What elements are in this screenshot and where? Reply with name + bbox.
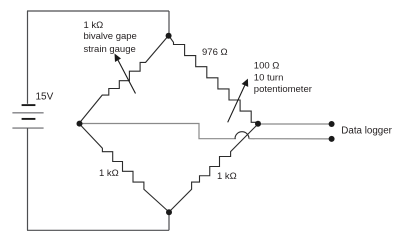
arrowhead of strain gauge arrow [115, 54, 122, 63]
svg-text:Data logger: Data logger [341, 126, 392, 137]
wire: drop from top wire into node T [168, 11, 170, 35]
svg-text:100 Ω: 100 Ω [254, 60, 280, 71]
svg-text:15V: 15V [36, 92, 54, 103]
wire hop over bottom-right arm [235, 132, 249, 139]
wire: rise from bottom wire into node B [168, 212, 170, 230]
svg-text:1 kΩ: 1 kΩ [99, 168, 119, 179]
terminal dot: data logger top [329, 121, 335, 127]
resistor R4 1 kohm (bottom-right arm) [169, 124, 258, 212]
arrow of strain gauge (variable) [118, 60, 136, 93]
wire: top output from node R to data logger [258, 123, 330, 125]
arrowhead of potentiometer arrow [242, 79, 249, 87]
node T (top of bridge) [166, 33, 172, 39]
svg-text:bivalve gape: bivalve gape [84, 31, 137, 42]
svg-text:potentiometer: potentiometer [254, 84, 312, 95]
wire: bottom output continuing to data logger [249, 138, 330, 140]
node B (bottom of bridge) [166, 209, 172, 215]
svg-text:1 kΩ: 1 kΩ [217, 171, 237, 182]
wire: battery bottom down to bottom-left corner [27, 128, 29, 230]
arrow of potentiometer wiper [228, 85, 245, 122]
node R (right of bridge) [255, 121, 261, 127]
wire: left vertical from battery top up to top-left corner [27, 11, 29, 104]
resistor R2 976 ohm and potentiometer (top-right arm) [169, 36, 258, 123]
svg-text:1 kΩ: 1 kΩ [84, 20, 104, 31]
svg-text:976 Ω: 976 Ω [202, 47, 228, 58]
wire: bottom output from node L with step down [79, 124, 236, 139]
resistor R1 1 kohm bivalve gape strain gauge (left-top arm) [79, 36, 169, 124]
wire: bottom horizontal [27, 229, 169, 231]
svg-text:10 turn: 10 turn [254, 72, 284, 83]
node L (left of bridge) [77, 121, 83, 127]
wire: top horizontal [27, 10, 169, 12]
battery 15V [12, 105, 43, 128]
svg-text:strain gauge: strain gauge [84, 44, 136, 55]
terminal dot: data logger bottom [329, 136, 335, 142]
resistor R3 1 kohm (bottom-left arm) [79, 124, 169, 213]
